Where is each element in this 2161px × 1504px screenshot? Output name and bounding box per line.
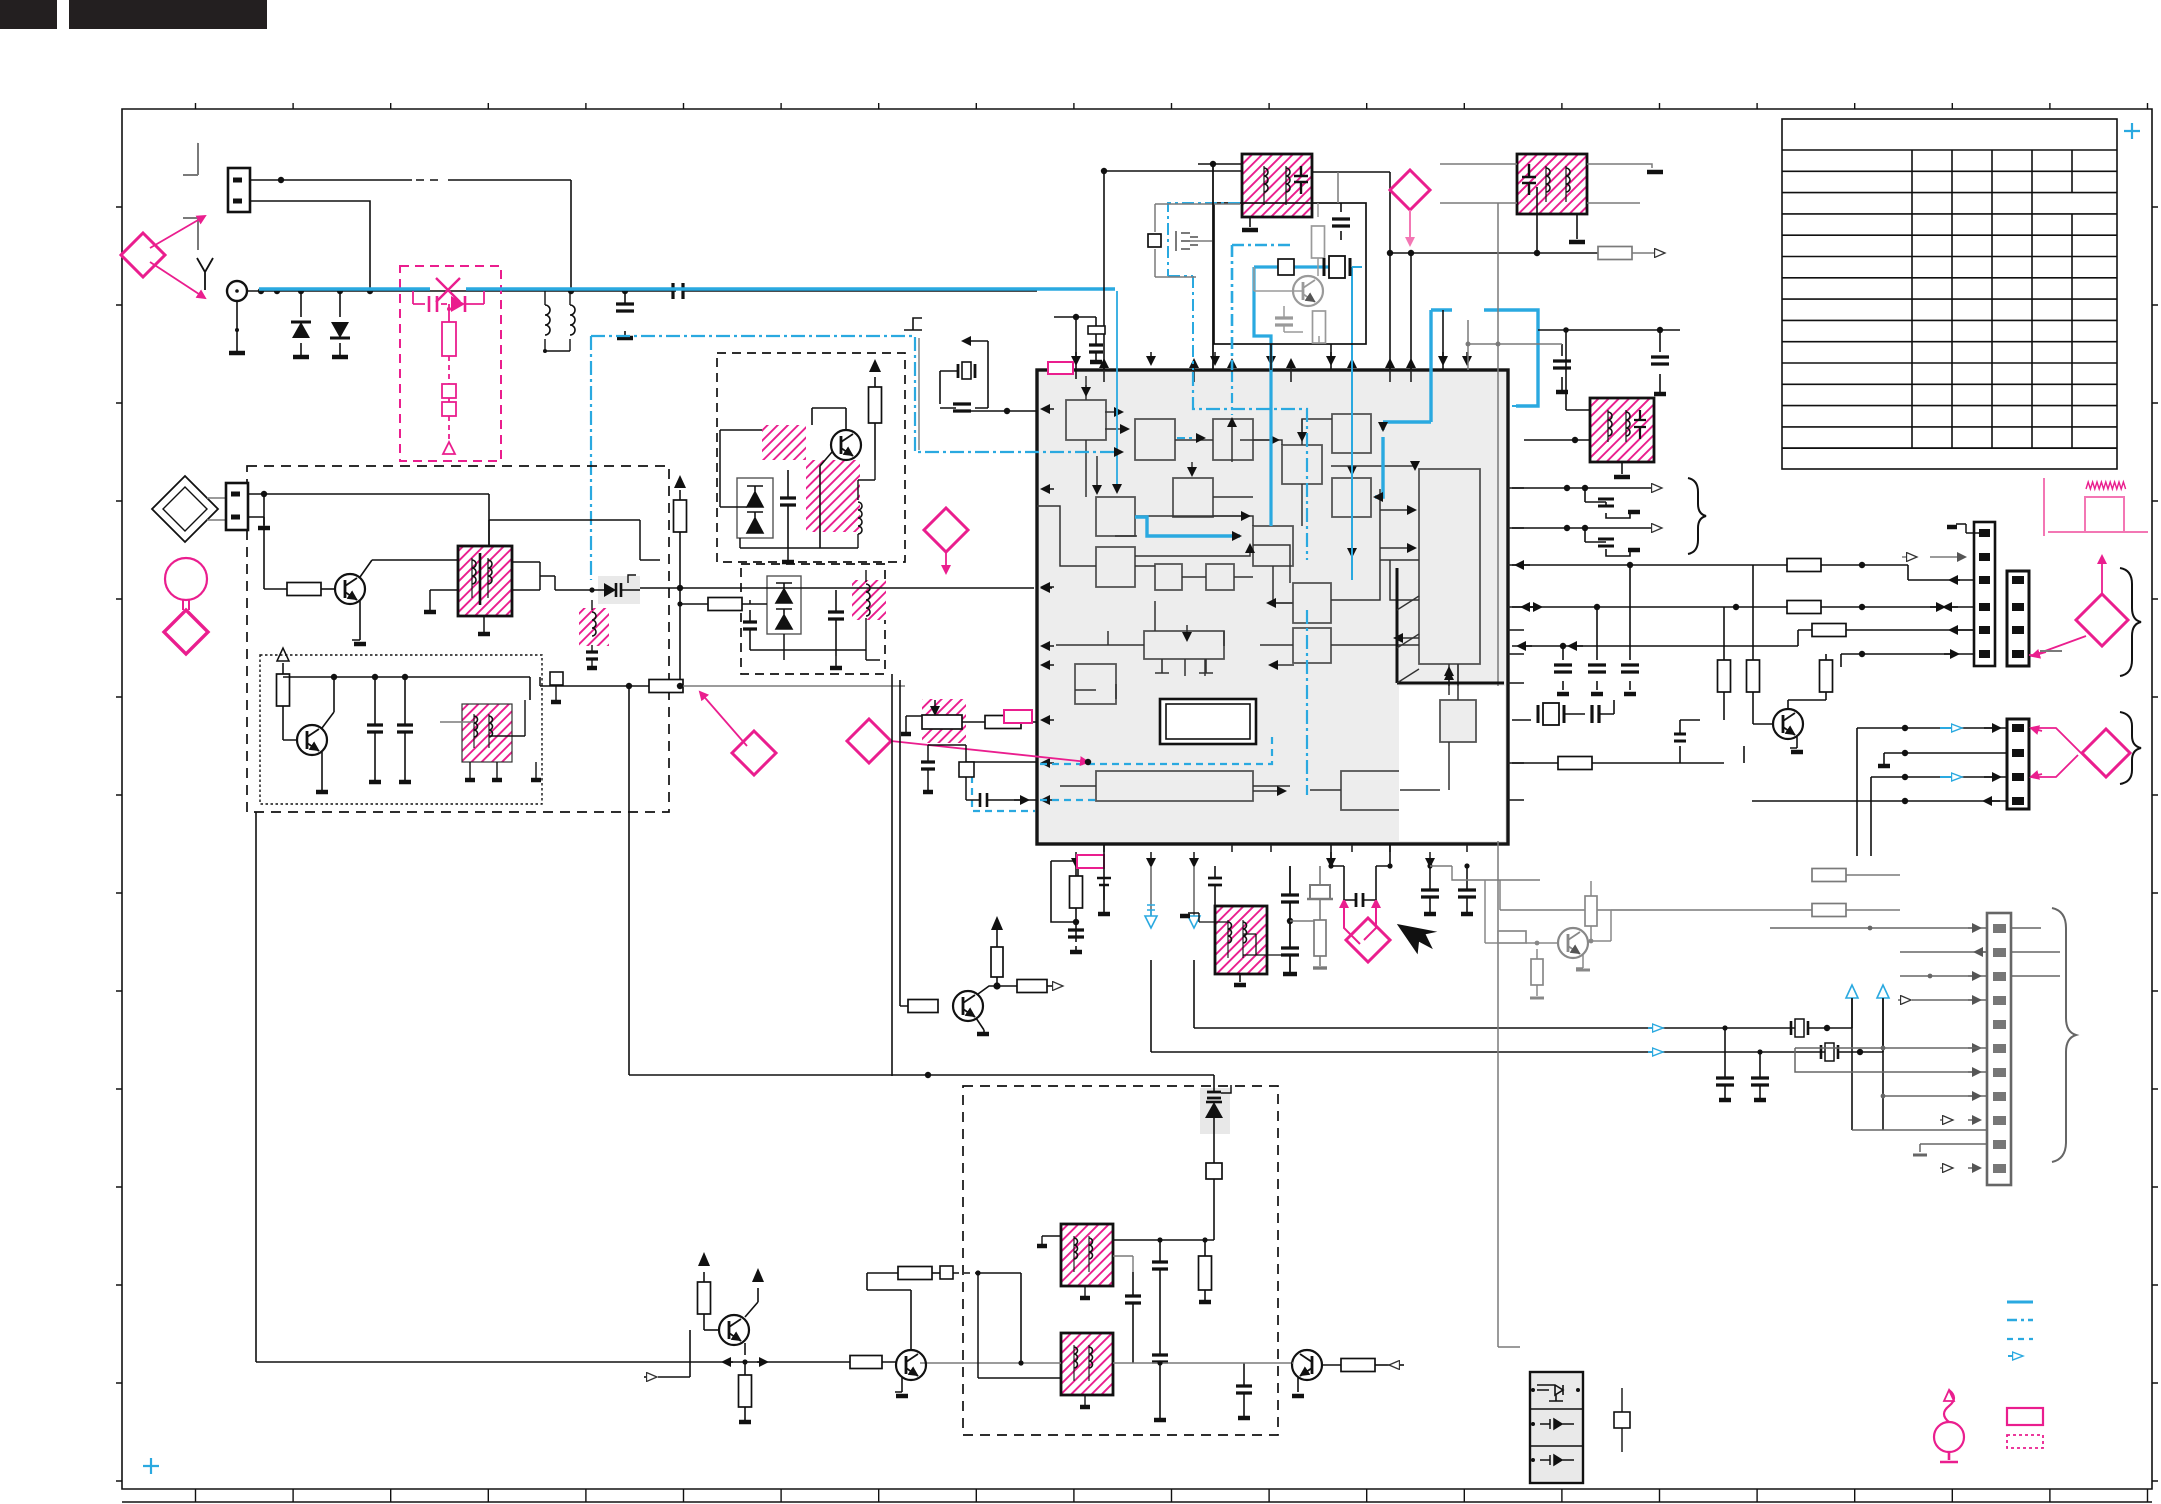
gray resistors right — [1812, 869, 1846, 882]
wire jack ground — [236, 301, 238, 353]
varactor pair 1 — [737, 478, 773, 538]
coil L2 — [569, 291, 571, 351]
brace C — [2120, 568, 2141, 676]
dashdot bold segment — [1232, 245, 1291, 370]
IC crystal window — [1160, 699, 1256, 744]
CN2a gray arrow pin — [1930, 556, 1965, 558]
gray ground stub left — [904, 318, 922, 330]
antenna connector J1 — [228, 168, 250, 212]
cyan arrows at IC right edge — [1512, 405, 1538, 407]
T2 cap — [1522, 164, 1536, 195]
test dashed box (magenta) — [400, 266, 501, 461]
T1 tuning cap — [1294, 166, 1308, 194]
osc resistor R (gray) — [1312, 226, 1325, 258]
IF transformer T2 — [1517, 154, 1587, 214]
mixer1 varactor left wire — [720, 430, 762, 507]
magenta diamond G mid — [924, 508, 968, 552]
FM transformer T3 — [458, 546, 512, 616]
resistor in discr — [1204, 1240, 1206, 1256]
cap column x1104 — [1103, 845, 1105, 900]
T6 top wire — [1538, 330, 1590, 410]
magenta loop arrows — [1343, 900, 1345, 915]
varactor pair 2 — [767, 576, 801, 634]
waveform sketch (pink) — [2044, 478, 2148, 536]
mosfet wires gray — [1155, 204, 1240, 277]
mixer1 bottom rail — [740, 538, 858, 560]
oscillator sub-box — [1214, 203, 1366, 344]
cyan open arrows down — [1150, 866, 1152, 925]
mixer feed wires right — [489, 520, 660, 560]
gray bus from x1498 down — [1498, 344, 1520, 1347]
wires at right of T2 — [1468, 343, 1498, 345]
varicap D3 — [598, 576, 640, 604]
T3 right wires — [512, 562, 540, 590]
cyan route into IC — [1116, 291, 1118, 486]
mosfet symbol (gray) — [1176, 231, 1198, 251]
diamond D (right lower) — [2082, 729, 2130, 777]
diode to gnd — [1743, 746, 1745, 763]
coil L1 — [545, 291, 570, 351]
magenta circle probe — [165, 558, 207, 600]
audio 2 cap — [1585, 528, 1630, 556]
T7 right wire to zener column — [1113, 1239, 1214, 1241]
caps under wires — [1562, 646, 1564, 690]
test point X — [436, 278, 460, 302]
cyan dashdot IC internal drop — [1193, 372, 1307, 795]
FM osc caps — [374, 677, 376, 780]
T1 ground — [1249, 217, 1251, 227]
xtal filter pair — [1512, 719, 1531, 721]
wire LR1 — [1857, 727, 2007, 729]
wire AF 3 — [1871, 629, 1974, 631]
FM pin2 wire gnd — [248, 517, 264, 525]
FM osc transformer T4 — [462, 704, 512, 762]
zener column — [1200, 1088, 1230, 1134]
wire from diamond junction right — [1390, 252, 1598, 254]
trimmer column x1320 — [1319, 866, 1321, 885]
magenta diamond I with long arrow — [847, 719, 891, 763]
T1 top wire — [1104, 170, 1242, 172]
IC block B21 redraw — [1440, 700, 1476, 742]
audio wire 2 — [1512, 527, 1661, 529]
FM osc dotted box — [260, 655, 542, 804]
cyan up arrows pair — [1846, 985, 1889, 998]
IC main block U1 — [1037, 370, 1508, 844]
diamond A arrow up — [150, 216, 205, 248]
T3 bottom gnd — [483, 616, 485, 632]
diamond C arrow up — [2101, 556, 2103, 594]
magenta diamond H arrow-up-left — [732, 731, 776, 775]
diagnosis diamond A — [121, 233, 165, 277]
mixer dashed box 2 — [741, 564, 885, 674]
wire T1 right down to osc box — [1337, 172, 1339, 203]
FM pin1 wire — [248, 494, 489, 546]
mixer1 resistor top — [869, 359, 881, 372]
transistor Q8 (right of discr) — [1292, 1350, 1322, 1380]
cyan osc loop left — [1254, 267, 1340, 526]
feed into IC y762 area — [966, 761, 1037, 763]
cyan dashdot into B3 — [1231, 372, 1233, 415]
cap right in discr — [1243, 1363, 1245, 1416]
trimmer symbol — [1621, 1388, 1623, 1452]
FM connector — [226, 483, 248, 530]
caps under rails — [1724, 1028, 1726, 1052]
diamond B arrow — [1409, 210, 1411, 245]
mixer2 hatch coil — [852, 580, 886, 620]
Q9 supply — [991, 916, 1003, 930]
IC divider diagonals — [1397, 596, 1419, 683]
cyan dashdot route (AM) — [591, 336, 1122, 452]
legend magenta rect solid — [2007, 1408, 2043, 1425]
wire varicap to IC — [640, 587, 1034, 589]
riser x1443 — [1442, 310, 1444, 370]
CN4 connector (gray) — [1987, 913, 2011, 1185]
Q10 resistors — [1498, 931, 1526, 943]
pin wire risers top — [1270, 344, 1272, 370]
small hatched choke — [579, 608, 609, 646]
cyan inner elbow 1 — [1381, 422, 1384, 430]
lower-left resonator — [1512, 762, 1724, 764]
mouse cursor — [1397, 916, 1441, 957]
cap C3 — [624, 291, 626, 335]
cyan inner elbow 2 — [1375, 437, 1383, 497]
wire LR4 — [1752, 800, 2007, 802]
wire AF 5 — [1066, 861, 1078, 880]
osc small square — [1278, 259, 1294, 275]
brace D — [2120, 712, 2141, 784]
Q9 emitter gnd — [976, 1018, 984, 1032]
IC internal wires — [1037, 385, 1458, 790]
T3 left gnd — [430, 590, 458, 610]
registration cross top-right — [2124, 123, 2140, 139]
T4 grounds — [470, 762, 497, 778]
mixer2 caps — [749, 610, 751, 650]
diamond B — [1390, 170, 1430, 210]
mixer1 transistor — [831, 430, 861, 460]
diamond A arrow down — [150, 262, 205, 298]
cap between magenta arrows — [1362, 899, 1364, 901]
FM double diamond — [152, 476, 218, 542]
riser x1331 to caps — [1331, 845, 1344, 900]
IC thick divider — [1397, 568, 1504, 683]
transistor Q7 (left of discr) — [896, 1350, 926, 1380]
caps in discr — [1159, 1240, 1161, 1420]
antenna symbol — [197, 258, 213, 290]
Q6 input arrow — [658, 1330, 690, 1377]
gray right stubs — [2011, 927, 2041, 929]
vertical feed x900 — [900, 680, 908, 1006]
CN4 wires — [1770, 927, 1987, 929]
audio wire 1 — [1512, 487, 1661, 489]
IC top pin arrows — [1075, 352, 1077, 364]
mixer1 cap — [787, 470, 789, 548]
parts table — [1782, 119, 2117, 469]
antenna bracket — [183, 143, 198, 250]
caps right of T5 x1290 — [1289, 866, 1291, 972]
connector CN3 — [2007, 719, 2029, 809]
T7 top-left gnd — [1042, 1236, 1061, 1244]
test network — [413, 291, 484, 304]
resistor into mixer2 — [708, 598, 742, 611]
Q9 base resistor — [908, 1000, 938, 1013]
Q6 base resistor — [703, 1314, 705, 1330]
long rail y1052 — [1151, 960, 1828, 1052]
wire J1 pin1 to right — [250, 180, 571, 291]
y686 rail to mixer — [540, 685, 649, 687]
magenta label rect B — [1077, 855, 1104, 868]
wire left of T1 riser — [1103, 171, 1105, 370]
CN3 magenta X link — [2033, 728, 2096, 777]
resistor columns — [1723, 607, 1725, 660]
osc crystal Y1 — [1324, 258, 1350, 276]
resonator — [958, 364, 975, 378]
osc resistor R2 (gray) — [1313, 311, 1326, 343]
long rail y1028 — [1194, 960, 1798, 1028]
dashed box bottom — [963, 1086, 1278, 1435]
magenta label rect C — [1004, 710, 1032, 723]
IC internal function blocks — [1066, 400, 1480, 810]
Q10 transistor gray — [1558, 928, 1588, 958]
T5 left gnd — [1188, 913, 1199, 922]
wire LR2 — [1884, 752, 2007, 754]
FM dashed box — [247, 466, 669, 812]
FM osc transistor Q2 — [297, 725, 327, 755]
diamond C line to pin — [2029, 636, 2086, 655]
discr input resistor row — [867, 1272, 898, 1274]
registration cross bottom-left — [143, 1458, 159, 1474]
wire LR3 — [1871, 776, 2007, 778]
below-IC risers — [1075, 866, 1077, 876]
diamond C (right) — [2076, 594, 2128, 646]
audio brace — [1688, 478, 1706, 554]
cyan dashed stereo route — [972, 733, 1272, 811]
junction top — [1389, 172, 1391, 370]
gray parallel riser — [918, 338, 920, 450]
wire AF 1 — [1512, 565, 1960, 580]
connector CN2a — [1974, 522, 1995, 666]
diode D2 — [339, 291, 341, 357]
mixer1 hatch L — [806, 460, 860, 532]
osc cap (gray) — [1275, 318, 1293, 325]
arrow-left tank — [963, 340, 988, 342]
cap near T2 bottom — [1561, 344, 1563, 390]
Q9 collector node — [978, 986, 997, 994]
riser x1213 — [1212, 164, 1214, 370]
caps x1430 x1467 — [1429, 866, 1431, 912]
vertical feed x680 — [679, 540, 681, 689]
connector CN2b — [2007, 571, 2029, 666]
arrow into pin row1 — [1950, 579, 1974, 581]
T8 left-bottom wire — [978, 1273, 1061, 1378]
cap right of xtal loop — [1659, 330, 1661, 392]
T6 ground — [1621, 462, 1623, 474]
CN4 brace — [2052, 908, 2076, 1162]
IC bottom pin arrows — [1075, 852, 1077, 866]
main RF wire — [247, 290, 1037, 292]
IC block16 legs — [1155, 659, 1213, 673]
cap C2 series — [673, 283, 683, 299]
T2 ground — [1576, 214, 1578, 239]
redaction bar 1 — [0, 0, 57, 29]
diode pack box — [1530, 1372, 1583, 1483]
IC internal arrows — [1085, 376, 1087, 395]
cap below resonator — [953, 404, 971, 411]
antenna jack — [227, 281, 247, 301]
osc base wire (gray) — [1254, 267, 1303, 291]
transistor Q5 — [1773, 709, 1803, 739]
Q9 transistor — [953, 991, 983, 1021]
IC left pin arrows — [1042, 408, 1054, 410]
wire from IC bottom x1104 down to discr — [866, 1273, 868, 1290]
R below IC left — [1051, 861, 1066, 886]
wire T8 row — [920, 1362, 1061, 1364]
T7 bottom gnd — [1084, 1286, 1086, 1296]
discr transformer T8 — [1061, 1333, 1113, 1395]
wire J1 pin2 down — [250, 201, 370, 291]
cyan dashdot B2-B3 link — [1177, 437, 1204, 439]
discr transformer T7 — [1061, 1224, 1113, 1286]
legend cyan lines — [2007, 1301, 2033, 1304]
IC white notch — [1399, 686, 1505, 841]
mosfet square pad — [1148, 234, 1161, 247]
audio 1 cap — [1585, 488, 1630, 518]
FM transistor Q1 — [335, 574, 365, 604]
IF transformer T5 (below IC) — [1215, 906, 1267, 974]
long feed y1075 — [629, 686, 1214, 1075]
IF transformer T1 — [1242, 154, 1312, 217]
trimmer cap column — [1075, 317, 1077, 379]
wire AF 2 — [1512, 606, 1974, 608]
magenta label rect A — [1048, 362, 1073, 374]
CN2a top pin gnd — [1956, 524, 1979, 533]
diode D1 — [300, 291, 302, 357]
bottom transistor Q6 — [719, 1315, 749, 1345]
ceramic filter column x1215 — [1214, 866, 1216, 878]
IC right pin arrows — [1508, 487, 1524, 489]
legend magenta coil probe — [1934, 1422, 1964, 1452]
legend magenta rect dotted — [2007, 1435, 2043, 1448]
small sq right of box — [550, 672, 563, 685]
T2 bottom wire — [1440, 202, 1640, 204]
vertical feed x892 — [891, 674, 893, 1076]
diamond F (left) — [164, 610, 208, 654]
cyan RF route main — [259, 287, 1115, 290]
cyan xtal route — [1431, 310, 1538, 406]
diamond E (below IC) — [1346, 918, 1390, 962]
IF transformer T6 (right of IC) — [1590, 398, 1654, 462]
T2 top wire to ground right — [1440, 164, 1652, 168]
dashdot top-left of osc — [1168, 203, 1240, 370]
T2 inner vertical wire — [1536, 187, 1538, 254]
resistor to testpoint — [1598, 247, 1632, 260]
osc transistor Q3 (gray) — [1293, 276, 1323, 306]
mixer1 coil right — [858, 502, 862, 534]
bottom-left long wire — [256, 812, 723, 1362]
resonator on rail — [1791, 1021, 1808, 1035]
FM osc top rail — [283, 677, 530, 700]
cyan dashdot drop — [590, 336, 592, 580]
wire AF 4 — [1512, 645, 1798, 647]
mixer dashed box 1 — [717, 353, 905, 562]
mixer2 bottom rail — [750, 634, 880, 660]
small hatched box + resistor mid — [922, 699, 966, 743]
redaction bar 2 — [69, 0, 267, 29]
osc cap C (black) — [1340, 203, 1342, 240]
cyan IF route arrow — [1135, 517, 1240, 536]
cyan osc loop right — [1352, 267, 1362, 580]
T6 left wire — [1524, 439, 1590, 441]
